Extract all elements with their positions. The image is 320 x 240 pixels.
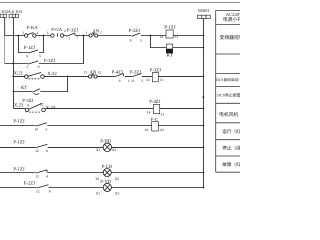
svg-text:P-2ZJ: P-2ZJ (24, 181, 35, 187)
relay coil P-3ZJ pins 14,13 (146, 68, 164, 83)
svg-text:P-1ZJ: P-1ZJ (13, 118, 24, 124)
svg-text:P-1ZJ: P-1ZJ (13, 166, 24, 172)
timed contact KT (21, 85, 40, 94)
svg-text:1: 1 (68, 37, 70, 41)
contact P-2ZJ pins 12,8 (24, 181, 51, 194)
svg-text:8: 8 (27, 103, 29, 107)
svg-text:5: 5 (39, 54, 41, 58)
svg-text:11: 11 (84, 71, 88, 75)
svg-text:7: 7 (76, 36, 78, 40)
node bus rung5 (203, 125, 205, 127)
node bus rung6 (203, 147, 205, 149)
node rung1 branchB riser (83, 35, 85, 37)
svg-text:X1: X1 (96, 191, 101, 195)
table row AC220 power (223, 12, 243, 23)
svg-text:P-4ZJ: P-4ZJ (149, 99, 160, 105)
svg-text:P-1ZJ: P-1ZJ (13, 140, 24, 146)
svg-text:6: 6 (46, 128, 48, 132)
wire right bus N6001 (202, 19, 204, 189)
svg-text:DCS停止按钮: DCS停止按钮 (217, 93, 240, 98)
svg-text:1: 1 (128, 79, 130, 83)
svg-text:12: 12 (98, 71, 102, 75)
contact P-1ZJ NC pins 12,4 (13, 166, 48, 178)
connector X:23 X:24 with contact P-3ZJ pins 8,12 (14, 98, 56, 112)
contact P-GA pins 1,2 (47, 27, 66, 37)
svg-text:14: 14 (147, 111, 151, 115)
wire rung 8 (0, 187, 203, 189)
svg-text:4: 4 (36, 31, 38, 35)
lamp P-YD pins X1,X2 (96, 179, 120, 196)
node left bus KT branch (13, 91, 15, 93)
svg-text:5: 5 (140, 38, 142, 42)
svg-text:9: 9 (26, 55, 28, 59)
svg-text:A2: A2 (160, 128, 165, 132)
svg-text:P-3ZJ: P-3ZJ (44, 58, 55, 64)
wire rung 4 (13, 107, 203, 109)
svg-text:9: 9 (119, 79, 121, 83)
svg-text:9: 9 (130, 38, 132, 42)
svg-text:1: 1 (47, 31, 49, 35)
contact P-1ZJ aux pins 9,5 (24, 45, 41, 59)
node bus rung2 (203, 76, 205, 78)
terminal strip X0 102A.6 103 (0, 9, 23, 18)
svg-text:P-1ZJ: P-1ZJ (24, 45, 35, 51)
svg-text:2: 2 (64, 29, 66, 33)
svg-text:14: 14 (159, 35, 163, 39)
function table frame (216, 10, 240, 172)
svg-text:P-GA: P-GA (51, 27, 63, 33)
svg-text:X:22: X:22 (47, 71, 57, 77)
svg-text:X:21: X:21 (14, 70, 24, 76)
svg-text:X:23: X:23 (14, 103, 24, 109)
node bus KT coil (203, 47, 205, 49)
wire rung 2 (13, 75, 203, 77)
connector X:21 X:22 (14, 70, 58, 78)
wire branch A P-1ZJ holding contact (18, 36, 43, 53)
pushbutton AN pins 11,12 (84, 70, 102, 78)
wire rung 5 (0, 125, 203, 127)
node bus rung4 (203, 108, 205, 110)
svg-text:N6001: N6001 (198, 8, 210, 13)
svg-text:8: 8 (49, 190, 51, 194)
svg-text:1: 1 (86, 31, 88, 35)
node bus rung7 (203, 172, 205, 174)
wire rung 7 (0, 172, 203, 174)
svg-text:13: 13 (160, 113, 164, 117)
svg-text:P-2ZJ: P-2ZJ (129, 28, 140, 34)
wire KT timed branch (13, 76, 67, 91)
svg-text:P-LD: P-LD (102, 164, 113, 170)
svg-text:电机风机: 电机风机 (219, 111, 239, 118)
terminal strip N6001 (198, 8, 211, 19)
svg-text:12: 12 (35, 175, 39, 179)
node bus rung8 (203, 187, 205, 189)
svg-text:11: 11 (131, 79, 135, 83)
node bus mid (203, 96, 205, 98)
svg-text:AC220V: AC220V (226, 12, 240, 17)
svg-text:X1: X1 (96, 148, 101, 152)
contact P-2ZJ pins 11,3 (130, 70, 143, 83)
pushbutton AN pins 1,2 (86, 29, 102, 38)
svg-text:102A.6 103: 102A.6 103 (1, 9, 23, 14)
svg-text:KT: KT (21, 85, 27, 91)
svg-text:12: 12 (35, 149, 39, 153)
wire KT coil branch (150, 36, 203, 48)
svg-text:X2: X2 (115, 191, 120, 195)
svg-text:X1: X1 (95, 177, 100, 181)
svg-text:10: 10 (34, 128, 38, 132)
contactor coil F-C pins A1,A2 (144, 117, 164, 132)
svg-text:停止（绿: 停止（绿 (222, 146, 240, 151)
svg-text:P-2ZJ: P-2ZJ (130, 70, 141, 76)
svg-text:运行（红: 运行（红 (222, 129, 240, 134)
relay coil P-1ZJ pins 14,13 (159, 25, 178, 39)
svg-text:4: 4 (46, 175, 48, 179)
svg-text:3: 3 (141, 79, 143, 83)
wire sheet top border (0, 2, 240, 4)
contact P-3ZJ aux pins 5,9 (26, 58, 55, 69)
svg-text:13: 13 (160, 78, 164, 82)
contact P-KA pins 3,4 (22, 25, 38, 37)
contact P-1ZJ pins 10,6 (13, 118, 47, 131)
svg-text:5: 5 (26, 65, 28, 69)
svg-text:8: 8 (46, 149, 48, 153)
wire rung 1 (5, 35, 204, 37)
lamp P-LD pins X1,X2 (95, 164, 119, 181)
svg-text:变频器控制: 变频器控制 (220, 34, 241, 41)
svg-text:X2: X2 (115, 177, 120, 181)
svg-text:12: 12 (36, 190, 40, 194)
node left bus branch B (13, 63, 15, 65)
svg-text:13: 13 (174, 35, 178, 39)
wire rung 6 (0, 146, 203, 148)
contact P-1ZJ pins 12,8 (13, 140, 48, 154)
svg-text:X:24: X:24 (46, 105, 56, 111)
lamp P-HD pins X1,X2 (96, 139, 116, 152)
contact P-4ZJ NC pins 9,5 (112, 70, 130, 83)
svg-text:9: 9 (38, 65, 40, 69)
wire branch B P-3ZJ selector path (5, 36, 84, 64)
svg-text:电源小开: 电源小开 (223, 16, 240, 23)
node left bus rung 2 (13, 76, 15, 78)
wire drop 102 continues to branch B (4, 36, 6, 64)
svg-text:3: 3 (22, 31, 24, 35)
node bus rung1 (203, 35, 205, 37)
timer coil KT (166, 44, 173, 59)
svg-text:KT: KT (167, 53, 173, 59)
svg-text:X2: X2 (112, 148, 117, 152)
svg-text:P-3ZJ: P-3ZJ (67, 27, 78, 33)
svg-text:DCS自动启动: DCS自动启动 (216, 77, 239, 82)
svg-text:14: 14 (146, 78, 150, 82)
wire left bus 103 (12, 18, 14, 109)
node rung 2 KT riser (67, 76, 69, 78)
node rung1 branchA right (43, 35, 45, 37)
node rung1 branchA left (18, 35, 20, 37)
svg-text:A1: A1 (144, 128, 149, 132)
contact P-2ZJ pins 9,5 (129, 28, 143, 42)
node rung1 coil split (150, 35, 152, 37)
relay coil P-4ZJ pins 14,13 (147, 99, 164, 117)
svg-text:P-4ZJ: P-4ZJ (112, 70, 123, 76)
wire drop from terminal 102 to rung 1 (4, 18, 6, 36)
svg-text:2: 2 (100, 30, 102, 34)
contact P-3ZJ NC pins 1,7 (67, 27, 79, 40)
svg-text:故障（红: 故障（红 (222, 162, 240, 167)
